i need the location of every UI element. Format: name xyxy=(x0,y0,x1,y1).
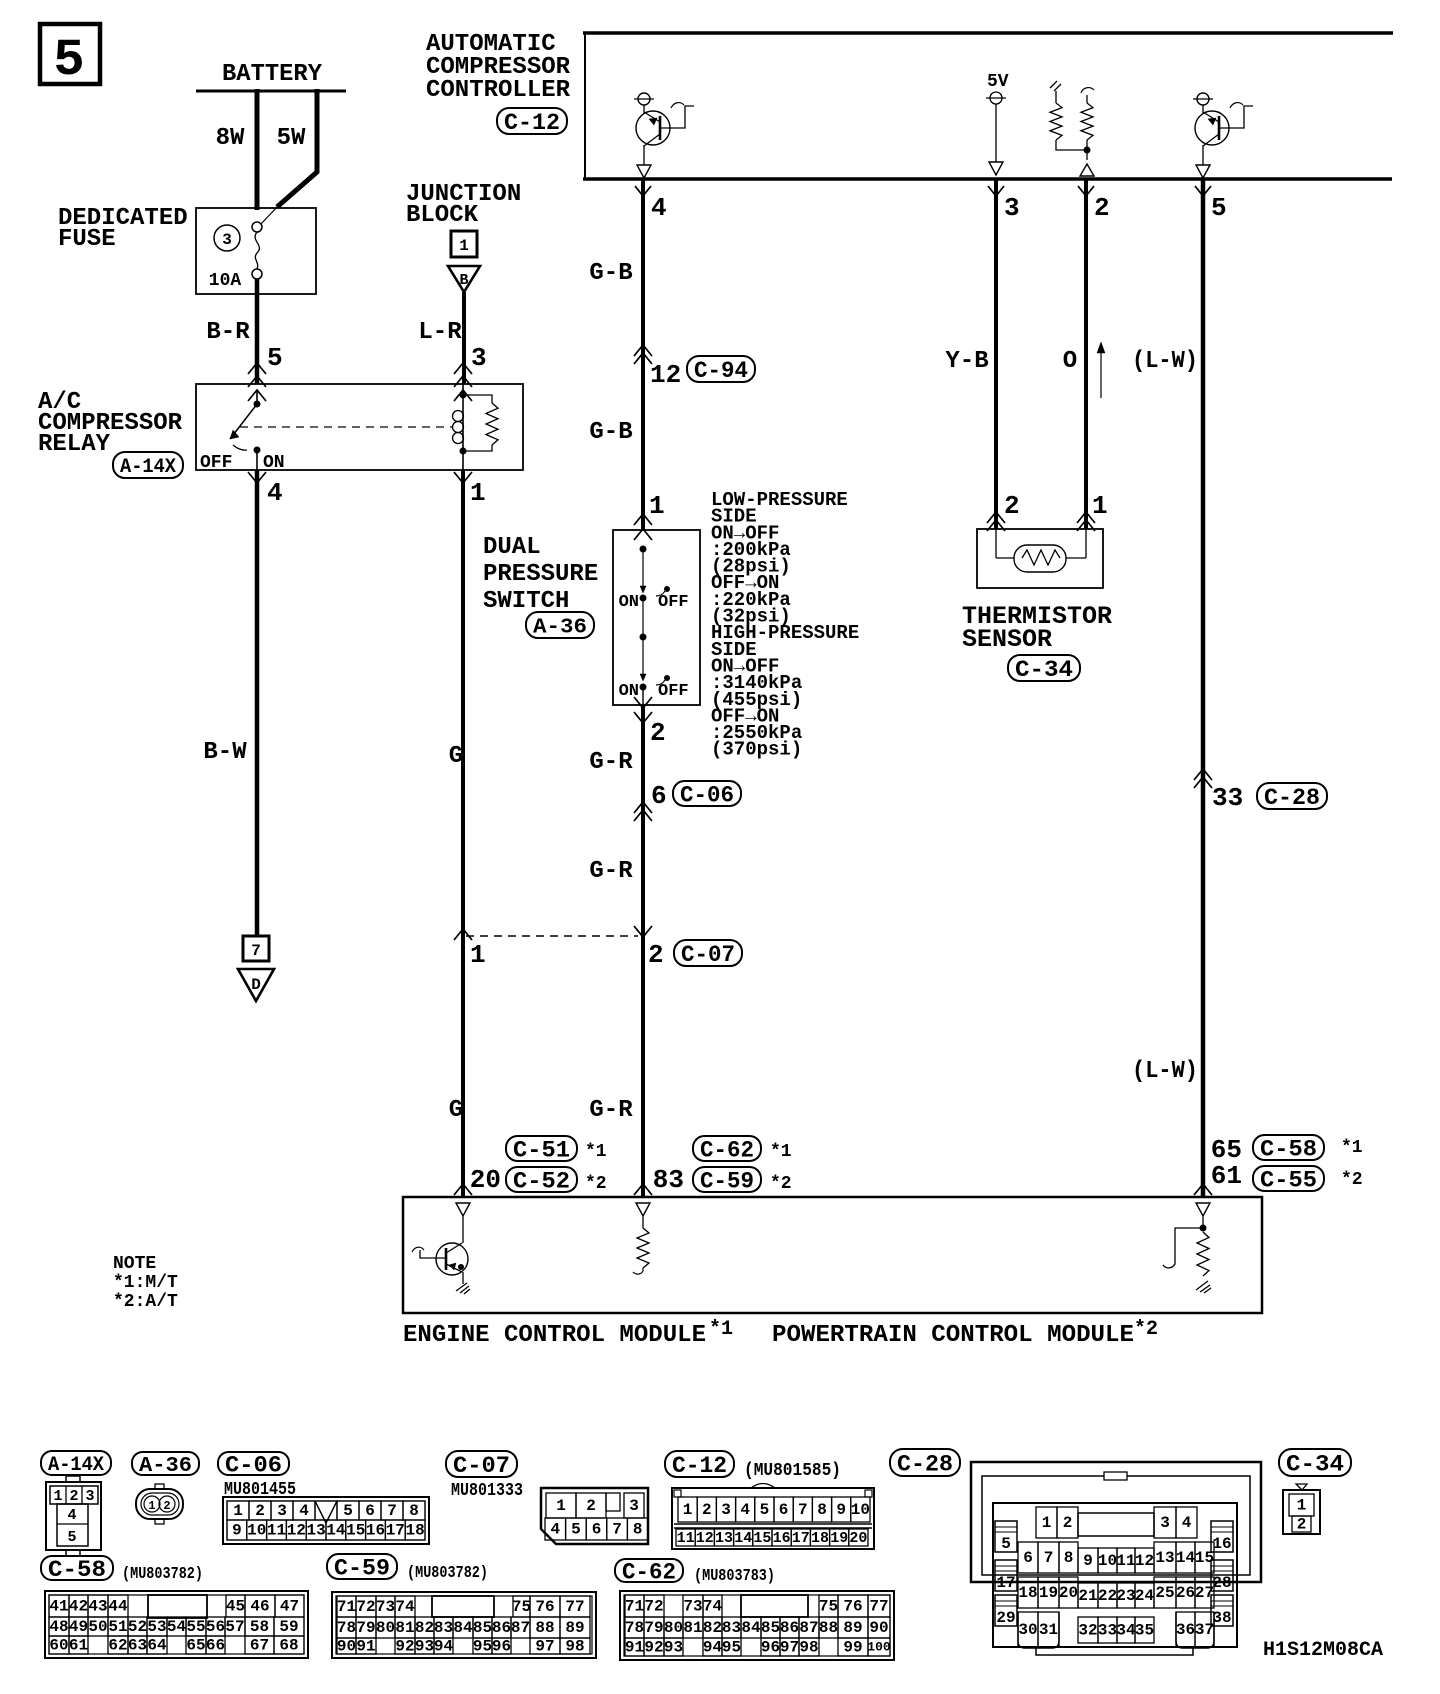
svg-text:11: 11 xyxy=(267,1522,286,1540)
svg-text:1: 1 xyxy=(459,237,469,255)
svg-text:C-28: C-28 xyxy=(1264,785,1320,811)
svg-text:13: 13 xyxy=(715,1530,733,1547)
svg-text:ON: ON xyxy=(619,593,639,612)
svg-text:97: 97 xyxy=(780,1639,799,1657)
svg-text:NOTE: NOTE xyxy=(113,1254,156,1274)
svg-text:56: 56 xyxy=(206,1618,225,1636)
svg-text:C-28: C-28 xyxy=(897,1452,953,1478)
svg-text:48: 48 xyxy=(49,1618,68,1636)
svg-text:95: 95 xyxy=(722,1639,741,1657)
svg-text:53: 53 xyxy=(147,1618,166,1636)
svg-text:74: 74 xyxy=(395,1598,415,1616)
svg-text:OFF: OFF xyxy=(658,593,689,612)
svg-text:27: 27 xyxy=(1195,1584,1214,1602)
svg-text:10: 10 xyxy=(851,1501,870,1519)
svg-text:19: 19 xyxy=(1039,1584,1058,1602)
svg-text:PRESSURE: PRESSURE xyxy=(483,561,598,588)
svg-text:47: 47 xyxy=(280,1598,299,1616)
svg-text:92: 92 xyxy=(395,1638,414,1656)
svg-text:78: 78 xyxy=(337,1619,356,1637)
svg-text:31: 31 xyxy=(1039,1621,1058,1639)
svg-text:61: 61 xyxy=(69,1637,88,1655)
svg-text:4: 4 xyxy=(651,193,667,223)
svg-text:G-B: G-B xyxy=(589,419,632,446)
svg-text:82: 82 xyxy=(415,1619,434,1637)
svg-text:37: 37 xyxy=(1195,1621,1214,1639)
svg-text:24: 24 xyxy=(1135,1587,1155,1605)
svg-text:1: 1 xyxy=(683,1501,693,1519)
svg-text:3: 3 xyxy=(85,1488,94,1505)
svg-text:(MU803782): (MU803782) xyxy=(407,1564,488,1583)
svg-text:96: 96 xyxy=(761,1639,780,1657)
svg-text:4: 4 xyxy=(267,478,283,508)
svg-text:45: 45 xyxy=(226,1598,245,1616)
svg-text:5V: 5V xyxy=(987,72,1009,92)
svg-text:86: 86 xyxy=(780,1619,799,1637)
svg-text:62: 62 xyxy=(108,1637,127,1655)
svg-text:B-W: B-W xyxy=(203,739,247,766)
svg-text:8: 8 xyxy=(1064,1549,1074,1567)
svg-text:90: 90 xyxy=(337,1638,356,1656)
svg-text:15: 15 xyxy=(753,1530,771,1547)
svg-text:51: 51 xyxy=(108,1618,127,1636)
svg-text:8: 8 xyxy=(817,1501,827,1519)
svg-text:OFF: OFF xyxy=(658,682,689,701)
svg-text:BATTERY: BATTERY xyxy=(222,61,323,88)
svg-text:(MU803783): (MU803783) xyxy=(694,1567,775,1586)
svg-text:46: 46 xyxy=(250,1598,269,1616)
svg-text:5: 5 xyxy=(571,1521,581,1539)
svg-text:5: 5 xyxy=(343,1502,353,1520)
svg-text:3: 3 xyxy=(1160,1514,1170,1532)
svg-text:1: 1 xyxy=(148,1499,155,1513)
svg-text:85: 85 xyxy=(761,1619,780,1637)
svg-text:A-14X: A-14X xyxy=(48,1454,104,1477)
svg-text:8: 8 xyxy=(409,1502,419,1520)
svg-text:5: 5 xyxy=(760,1501,770,1519)
svg-text:33: 33 xyxy=(1212,783,1243,813)
svg-text:SWITCH: SWITCH xyxy=(483,588,569,615)
svg-text:7: 7 xyxy=(251,942,261,960)
svg-text:4: 4 xyxy=(67,1507,76,1524)
svg-text:1: 1 xyxy=(1092,491,1108,521)
svg-text:5: 5 xyxy=(1001,1535,1011,1553)
svg-text:81: 81 xyxy=(683,1619,702,1637)
svg-text:C-06: C-06 xyxy=(225,1453,282,1479)
svg-text:75: 75 xyxy=(819,1598,838,1616)
svg-text:14: 14 xyxy=(326,1522,346,1540)
svg-text:79: 79 xyxy=(356,1619,375,1637)
svg-text:88: 88 xyxy=(535,1619,554,1637)
svg-text:9: 9 xyxy=(1083,1552,1093,1570)
svg-text:16: 16 xyxy=(366,1522,385,1540)
svg-text:C-34: C-34 xyxy=(1286,1452,1344,1478)
svg-text:5W: 5W xyxy=(277,125,306,152)
svg-text:Y-B: Y-B xyxy=(945,348,988,375)
svg-text:4: 4 xyxy=(550,1521,560,1539)
svg-text:71: 71 xyxy=(337,1598,356,1616)
svg-text:34: 34 xyxy=(1116,1622,1136,1640)
svg-text:2: 2 xyxy=(702,1501,712,1519)
svg-text:36: 36 xyxy=(1176,1621,1195,1639)
svg-text:99: 99 xyxy=(843,1639,862,1657)
svg-text:G-R: G-R xyxy=(589,1097,633,1124)
svg-text:4: 4 xyxy=(1182,1514,1192,1532)
svg-text:*1: *1 xyxy=(585,1142,607,1162)
svg-text:18: 18 xyxy=(1018,1584,1037,1602)
svg-text:1: 1 xyxy=(470,478,486,508)
svg-text:30: 30 xyxy=(1018,1621,1037,1639)
svg-text:5: 5 xyxy=(1211,193,1227,223)
svg-text:2: 2 xyxy=(650,718,666,748)
svg-text:BLOCK: BLOCK xyxy=(406,202,479,229)
svg-text:81: 81 xyxy=(395,1619,414,1637)
svg-text:28: 28 xyxy=(1212,1574,1231,1592)
svg-text:C-58: C-58 xyxy=(1260,1137,1317,1163)
svg-text:83: 83 xyxy=(722,1619,741,1637)
svg-text:87: 87 xyxy=(799,1619,818,1637)
svg-text:93: 93 xyxy=(664,1639,683,1657)
svg-text:G-R: G-R xyxy=(589,858,633,885)
svg-text:CONTROLLER: CONTROLLER xyxy=(426,77,571,104)
svg-text:RELAY: RELAY xyxy=(38,431,111,458)
svg-text:2: 2 xyxy=(1094,193,1110,223)
svg-text:C-58: C-58 xyxy=(48,1557,106,1583)
svg-text:65: 65 xyxy=(186,1637,205,1655)
svg-text:80: 80 xyxy=(664,1619,683,1637)
svg-text:21: 21 xyxy=(1078,1587,1097,1605)
svg-text:29: 29 xyxy=(996,1609,1015,1627)
svg-text:89: 89 xyxy=(843,1619,862,1637)
svg-text:89: 89 xyxy=(565,1619,584,1637)
svg-text:11: 11 xyxy=(677,1530,695,1547)
svg-text:2: 2 xyxy=(255,1502,265,1520)
svg-text:88: 88 xyxy=(819,1619,838,1637)
svg-text:64: 64 xyxy=(147,1637,167,1655)
svg-text:75: 75 xyxy=(512,1598,531,1616)
svg-text:94: 94 xyxy=(434,1638,454,1656)
svg-text:7: 7 xyxy=(798,1501,808,1519)
svg-text:19: 19 xyxy=(830,1530,848,1547)
svg-text:14: 14 xyxy=(734,1530,752,1547)
svg-text:100: 100 xyxy=(867,1640,891,1655)
svg-text:12: 12 xyxy=(650,360,681,390)
svg-text:72: 72 xyxy=(644,1598,663,1616)
svg-text:DUAL: DUAL xyxy=(483,534,541,561)
svg-text:32: 32 xyxy=(1078,1622,1097,1640)
svg-text:6: 6 xyxy=(779,1501,789,1519)
svg-text:2: 2 xyxy=(1004,491,1020,521)
svg-text:35: 35 xyxy=(1135,1622,1154,1640)
svg-text:3: 3 xyxy=(471,343,487,373)
svg-text:90: 90 xyxy=(869,1619,888,1637)
svg-text:(L-W): (L-W) xyxy=(1132,1058,1198,1085)
svg-text:76: 76 xyxy=(843,1598,862,1616)
svg-text:ON: ON xyxy=(263,453,285,473)
svg-text:*2: *2 xyxy=(770,1174,792,1194)
svg-text:H1S12M08CA: H1S12M08CA xyxy=(1263,1639,1383,1662)
svg-text:8: 8 xyxy=(633,1521,643,1539)
svg-text:6: 6 xyxy=(365,1502,375,1520)
svg-text:1: 1 xyxy=(233,1502,243,1520)
svg-text:6: 6 xyxy=(1023,1549,1033,1567)
svg-text:86: 86 xyxy=(492,1619,511,1637)
svg-text:1: 1 xyxy=(470,940,486,970)
svg-text:77: 77 xyxy=(869,1598,888,1616)
svg-text:17: 17 xyxy=(792,1530,810,1547)
svg-text:C-94: C-94 xyxy=(694,358,748,384)
svg-text:97: 97 xyxy=(535,1638,554,1656)
svg-text:2: 2 xyxy=(69,1488,78,1505)
svg-text:FUSE: FUSE xyxy=(58,226,116,253)
svg-text:3: 3 xyxy=(1004,193,1020,223)
svg-text:(MU801585): (MU801585) xyxy=(744,1461,841,1481)
svg-text:2: 2 xyxy=(1063,1514,1073,1532)
svg-text:L-R: L-R xyxy=(418,319,462,346)
svg-text:95: 95 xyxy=(473,1638,492,1656)
svg-text:C-34: C-34 xyxy=(1015,657,1073,683)
svg-text:POWERTRAIN CONTROL MODULE: POWERTRAIN CONTROL MODULE xyxy=(772,1322,1134,1349)
svg-text:44: 44 xyxy=(108,1598,128,1616)
svg-text:10A: 10A xyxy=(209,271,242,291)
svg-text:22: 22 xyxy=(1098,1587,1117,1605)
svg-text:C-51: C-51 xyxy=(513,1138,570,1164)
svg-text:1: 1 xyxy=(649,491,665,521)
svg-text:38: 38 xyxy=(1212,1609,1231,1627)
svg-text:4: 4 xyxy=(299,1502,309,1520)
svg-text:73: 73 xyxy=(376,1598,395,1616)
svg-text:1: 1 xyxy=(556,1497,566,1515)
svg-text:OFF: OFF xyxy=(200,453,232,473)
svg-text:ENGINE CONTROL MODULE: ENGINE CONTROL MODULE xyxy=(403,1322,706,1349)
svg-text:D: D xyxy=(251,976,261,994)
svg-text:98: 98 xyxy=(565,1638,584,1656)
svg-text:C-07: C-07 xyxy=(681,942,735,968)
svg-text:A-14X: A-14X xyxy=(120,456,176,479)
svg-text:12: 12 xyxy=(1135,1552,1154,1570)
svg-text:(L-W): (L-W) xyxy=(1132,348,1198,375)
svg-text:*1: *1 xyxy=(770,1142,792,1162)
svg-text:43: 43 xyxy=(88,1598,107,1616)
svg-text:2: 2 xyxy=(648,940,664,970)
svg-text:C-12: C-12 xyxy=(672,1453,727,1479)
svg-text:7: 7 xyxy=(387,1502,397,1520)
svg-text:17: 17 xyxy=(996,1574,1015,1592)
svg-text:91: 91 xyxy=(356,1638,375,1656)
svg-text:*2: *2 xyxy=(585,1174,607,1194)
svg-text:50: 50 xyxy=(88,1618,107,1636)
svg-text:B: B xyxy=(459,272,468,289)
svg-text:A-36: A-36 xyxy=(139,1455,192,1478)
svg-text:C-55: C-55 xyxy=(1260,1168,1317,1194)
svg-text:6: 6 xyxy=(651,781,667,811)
svg-text:15: 15 xyxy=(346,1522,365,1540)
svg-text:15: 15 xyxy=(1195,1549,1214,1567)
svg-text:94: 94 xyxy=(703,1639,723,1657)
svg-text:66: 66 xyxy=(206,1637,225,1655)
svg-text:26: 26 xyxy=(1176,1584,1195,1602)
svg-text:6: 6 xyxy=(592,1521,602,1539)
svg-text:98: 98 xyxy=(799,1639,818,1657)
svg-text:83: 83 xyxy=(653,1165,684,1195)
svg-text:85: 85 xyxy=(473,1619,492,1637)
svg-text:80: 80 xyxy=(376,1619,395,1637)
svg-text:16: 16 xyxy=(773,1530,791,1547)
svg-text:83: 83 xyxy=(434,1619,453,1637)
svg-text:1: 1 xyxy=(53,1488,62,1505)
svg-text:3: 3 xyxy=(222,231,232,249)
svg-text:76: 76 xyxy=(535,1598,554,1616)
svg-text:20: 20 xyxy=(470,1165,501,1195)
svg-text:13: 13 xyxy=(306,1522,325,1540)
svg-text:20: 20 xyxy=(849,1530,867,1547)
svg-text:84: 84 xyxy=(741,1619,761,1637)
svg-text:*1: *1 xyxy=(1341,1138,1363,1158)
svg-text:2: 2 xyxy=(1297,1516,1307,1534)
svg-text:57: 57 xyxy=(225,1618,244,1636)
svg-text:67: 67 xyxy=(250,1637,269,1655)
svg-text:79: 79 xyxy=(644,1619,663,1637)
svg-text:52: 52 xyxy=(128,1618,147,1636)
svg-text:68: 68 xyxy=(279,1637,298,1655)
svg-text:C-52: C-52 xyxy=(513,1169,570,1195)
svg-text:18: 18 xyxy=(811,1530,829,1547)
svg-text:A-36: A-36 xyxy=(533,616,587,639)
svg-text:1: 1 xyxy=(1042,1514,1052,1532)
svg-text:78: 78 xyxy=(625,1619,644,1637)
svg-text:B-R: B-R xyxy=(206,319,250,346)
svg-text:*2: *2 xyxy=(1134,1318,1158,1341)
svg-text:7: 7 xyxy=(612,1521,622,1539)
svg-text:71: 71 xyxy=(625,1598,644,1616)
svg-text:63: 63 xyxy=(128,1637,147,1655)
svg-text:(370psi): (370psi) xyxy=(711,739,802,761)
svg-text:G-R: G-R xyxy=(589,749,633,776)
svg-text:C-12: C-12 xyxy=(504,110,560,136)
svg-text:G: G xyxy=(449,1097,463,1124)
svg-text:2: 2 xyxy=(586,1497,596,1515)
svg-text:82: 82 xyxy=(703,1619,722,1637)
svg-text:O: O xyxy=(1063,348,1077,375)
svg-text:59: 59 xyxy=(279,1618,298,1636)
svg-text:5: 5 xyxy=(53,31,84,90)
svg-text:20: 20 xyxy=(1059,1584,1078,1602)
svg-text:54: 54 xyxy=(167,1618,187,1636)
svg-text:60: 60 xyxy=(49,1637,68,1655)
svg-text:13: 13 xyxy=(1155,1549,1174,1567)
svg-text:11: 11 xyxy=(1116,1552,1135,1570)
svg-text:17: 17 xyxy=(386,1522,405,1540)
svg-text:10: 10 xyxy=(247,1522,266,1540)
svg-text:G: G xyxy=(449,743,463,770)
svg-text:10: 10 xyxy=(1098,1552,1117,1570)
svg-text:3: 3 xyxy=(277,1502,287,1520)
svg-text:74: 74 xyxy=(703,1598,723,1616)
svg-text:5: 5 xyxy=(67,1529,76,1546)
svg-text:84: 84 xyxy=(453,1619,473,1637)
svg-text:C-59: C-59 xyxy=(334,1556,390,1582)
svg-text:8W: 8W xyxy=(216,125,245,152)
svg-text:73: 73 xyxy=(683,1598,702,1616)
svg-text:92: 92 xyxy=(644,1639,663,1657)
svg-text:*1: *1 xyxy=(709,1318,733,1341)
svg-text:C-62: C-62 xyxy=(700,1138,754,1164)
svg-text:25: 25 xyxy=(1155,1584,1174,1602)
svg-text:3: 3 xyxy=(721,1501,731,1519)
svg-text:41: 41 xyxy=(49,1598,68,1616)
svg-text:7: 7 xyxy=(1044,1549,1054,1567)
svg-text:4: 4 xyxy=(740,1501,750,1519)
svg-text:C-62: C-62 xyxy=(622,1560,676,1586)
svg-text:9: 9 xyxy=(232,1522,242,1540)
svg-text:MU801333: MU801333 xyxy=(451,1481,523,1501)
svg-text:C-07: C-07 xyxy=(453,1453,510,1479)
svg-text:58: 58 xyxy=(250,1618,269,1636)
svg-text:*1:M/T: *1:M/T xyxy=(113,1273,178,1293)
svg-text:2: 2 xyxy=(163,1499,170,1513)
svg-text:C-06: C-06 xyxy=(680,783,734,809)
svg-text:33: 33 xyxy=(1098,1622,1117,1640)
svg-text:(MU803782): (MU803782) xyxy=(122,1565,203,1584)
svg-text:SENSOR: SENSOR xyxy=(962,625,1052,654)
svg-text:14: 14 xyxy=(1176,1549,1196,1567)
svg-text:55: 55 xyxy=(186,1618,205,1636)
svg-text:87: 87 xyxy=(511,1619,530,1637)
svg-text:61: 61 xyxy=(1211,1161,1242,1191)
svg-text:18: 18 xyxy=(405,1522,424,1540)
svg-text:12: 12 xyxy=(287,1522,306,1540)
svg-text:16: 16 xyxy=(1212,1535,1231,1553)
svg-text:91: 91 xyxy=(625,1639,644,1657)
svg-text:93: 93 xyxy=(415,1638,434,1656)
svg-text:1: 1 xyxy=(1297,1497,1307,1515)
svg-text:77: 77 xyxy=(565,1598,584,1616)
svg-text:9: 9 xyxy=(836,1501,846,1519)
svg-text:G-B: G-B xyxy=(589,260,632,287)
svg-text:96: 96 xyxy=(492,1638,511,1656)
svg-text:C-59: C-59 xyxy=(700,1169,754,1195)
svg-text:12: 12 xyxy=(696,1530,714,1547)
svg-text:5: 5 xyxy=(267,343,283,373)
svg-text:72: 72 xyxy=(356,1598,375,1616)
svg-text:*2:A/T: *2:A/T xyxy=(113,1292,178,1312)
svg-text:23: 23 xyxy=(1116,1587,1135,1605)
svg-text:42: 42 xyxy=(69,1598,88,1616)
svg-text:*2: *2 xyxy=(1341,1170,1363,1190)
svg-text:3: 3 xyxy=(629,1497,639,1515)
svg-text:49: 49 xyxy=(69,1618,88,1636)
